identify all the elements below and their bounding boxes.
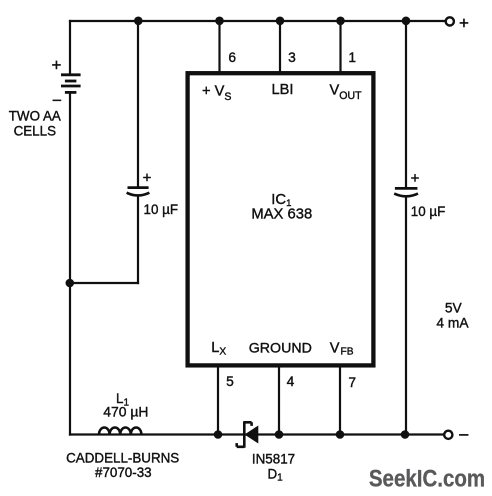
svg-text:10 µF: 10 µF [144, 202, 179, 217]
wire pin 6 stub [218, 21, 220, 71]
terminal minus output [444, 431, 452, 439]
junction node dots [66, 17, 411, 439]
node C1 top [134, 17, 143, 26]
wire bottom rail [70, 433, 443, 435]
svg-text:−: − [458, 424, 469, 445]
svg-text:LBI: LBI [272, 82, 294, 98]
node pin 1 [336, 17, 345, 26]
wire top rail [70, 20, 445, 22]
wire output capacitor C2 branch lower [405, 197, 407, 435]
inductor L1 470uH [99, 427, 141, 434]
node pin 4 [275, 430, 284, 439]
node battery C1 join [66, 279, 75, 288]
svg-text:10 µF: 10 µF [411, 204, 446, 219]
svg-text:7: 7 [348, 375, 356, 390]
wire C1 branch to battery rail [70, 282, 138, 284]
node pin 5 [214, 430, 223, 439]
svg-text:GROUND: GROUND [249, 341, 312, 357]
wire pin 1 stub [339, 21, 341, 71]
svg-text:+: + [143, 170, 152, 187]
svg-text:#7070-33: #7070-33 [95, 465, 152, 480]
node pin 7 [336, 430, 345, 439]
svg-text:MAX 638: MAX 638 [251, 206, 312, 222]
wire capacitor C1 bottom branch [137, 196, 139, 283]
svg-text:3: 3 [288, 50, 296, 65]
node C2 bottom [401, 430, 410, 439]
capacitor C1 10uF [127, 188, 150, 196]
wire battery bottom to lower rail [69, 93, 71, 435]
wire pin 4 stub [278, 365, 280, 435]
wire battery top segment [69, 21, 71, 74]
wire output capacitor C2 branch upper [405, 21, 407, 187]
svg-text:TWO AA: TWO AA [9, 108, 61, 123]
wire pin 5 stub [217, 365, 219, 435]
svg-text:470 µH: 470 µH [103, 404, 148, 420]
svg-text:+: + [459, 14, 469, 33]
svg-text:CELLS: CELLS [14, 123, 56, 138]
diode D1 IN5817 schottky [237, 421, 258, 448]
svg-text:CADDELL-BURNS: CADDELL-BURNS [66, 451, 179, 466]
svg-text:−: − [52, 91, 62, 110]
svg-text:4 mA: 4 mA [436, 315, 469, 330]
svg-text:IN5817: IN5817 [252, 452, 295, 467]
svg-text:5V: 5V [445, 301, 463, 316]
svg-text:1: 1 [348, 50, 356, 65]
terminal plus output [446, 17, 454, 25]
node pin 3 [276, 17, 285, 26]
node pin 6 [215, 17, 224, 26]
svg-text:6: 6 [228, 50, 236, 65]
svg-text:D1: D1 [268, 466, 284, 483]
battery B1 TWO AA CELLS [61, 75, 81, 93]
op-amp U1 IC box MAX638 [188, 73, 374, 365]
wire capacitor C1 top branch [137, 21, 139, 186]
wire pin 7 stub [339, 365, 341, 435]
svg-text:SeekIC.com: SeekIC.com [369, 465, 485, 492]
capacitor C2 10uF [394, 188, 418, 196]
svg-text:5: 5 [226, 374, 234, 389]
svg-text:4: 4 [287, 374, 295, 389]
node C2 top [402, 17, 411, 26]
wire pin 3 stub [279, 21, 281, 71]
svg-text:+: + [411, 170, 420, 187]
svg-text:+: + [52, 56, 62, 75]
